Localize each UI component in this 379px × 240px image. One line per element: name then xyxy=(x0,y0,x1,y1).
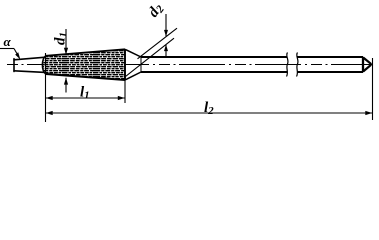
threaded section (stippled, tapered) xyxy=(43,49,125,80)
end cone point xyxy=(363,57,371,71)
l2 arrowheads xyxy=(46,111,53,115)
d2 arrowheads xyxy=(164,30,168,37)
l1 extension line left xyxy=(45,53,47,122)
d2 dimension line xyxy=(165,14,167,58)
l1 extension line right xyxy=(124,80,126,103)
d1 arrowheads xyxy=(64,48,68,55)
lead top edge xyxy=(14,57,46,60)
alpha arrowhead xyxy=(15,52,20,59)
l1 arrowheads xyxy=(46,96,53,100)
svg-text:α: α xyxy=(4,34,12,49)
svg-text:l2: l2 xyxy=(204,100,214,117)
l1 dimension line xyxy=(46,97,126,99)
d2 oblique extension lines xyxy=(126,28,178,76)
centerline (axis, dash-dot) xyxy=(7,64,372,66)
l2 dimension line xyxy=(46,112,373,114)
svg-text:d1: d1 xyxy=(53,32,70,45)
neck cone to shank xyxy=(125,49,141,80)
lead bottom edge xyxy=(14,71,46,73)
front face xyxy=(13,59,15,72)
shank end face xyxy=(362,57,364,72)
tap front pilot / chamfer lead xyxy=(14,57,46,72)
d1 dimension line upper xyxy=(65,29,67,93)
break lines xyxy=(287,53,299,77)
thread top edge xyxy=(46,49,125,56)
l2 extension line right xyxy=(372,58,374,120)
thread start runout arc xyxy=(42,56,46,74)
svg-text:l1: l1 xyxy=(80,85,90,102)
alpha leader xyxy=(0,49,18,56)
thread bottom edge xyxy=(46,74,125,80)
thread end face xyxy=(124,49,126,80)
svg-text:d2: d2 xyxy=(145,0,167,21)
shank xyxy=(141,57,363,72)
